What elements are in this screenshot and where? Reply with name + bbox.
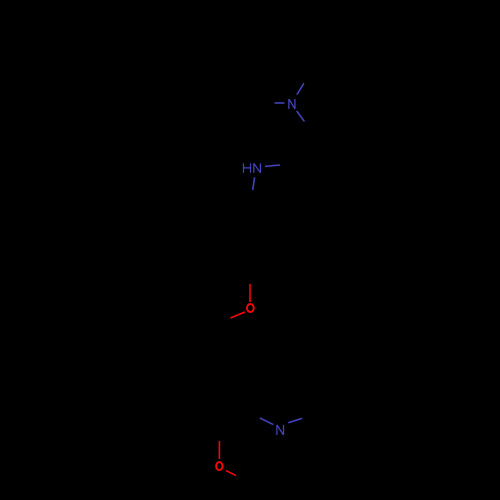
bond N2-CH2 (right, half-bond) [265,165,280,166]
atom O2 (methoxy oxygen) label, drawn as ellipse ring [216,462,222,470]
bond O2-CH3 (down-right methyl, half-bond) [226,471,236,476]
atom O1 (benzylic ether oxygen) label, drawn as ellipse ring [247,304,254,312]
bond N3-Caryl (up-left, half-bond) [260,418,274,425]
bond N1-CH3 (upper-right methyl, half-bond) [297,83,304,94]
bond N1-CH2 (down-right chain, half-bond) [297,111,305,121]
bond N1-CH3 (left methyl, half-bond) [275,102,285,104]
atom N3 (N-methyl nitrogen) label, drawn as strokes [277,425,284,435]
bond N2-Caryl (down, half-bond) [253,177,255,190]
bond N3-CH3 (up-right methyl, half-bond) [288,418,302,422]
bond O1-Caryl (up, half-bond) [249,284,251,302]
bond O2-Caryl (up, half-bond) [218,441,220,459]
bond O1-CH2 (down-left, half-bond) [230,312,245,318]
atom N2 (secondary amine) "HN" label, drawn as strokes [244,163,261,172]
atom N1 (dimethylamino nitrogen) label, drawn as strokes [289,99,295,109]
